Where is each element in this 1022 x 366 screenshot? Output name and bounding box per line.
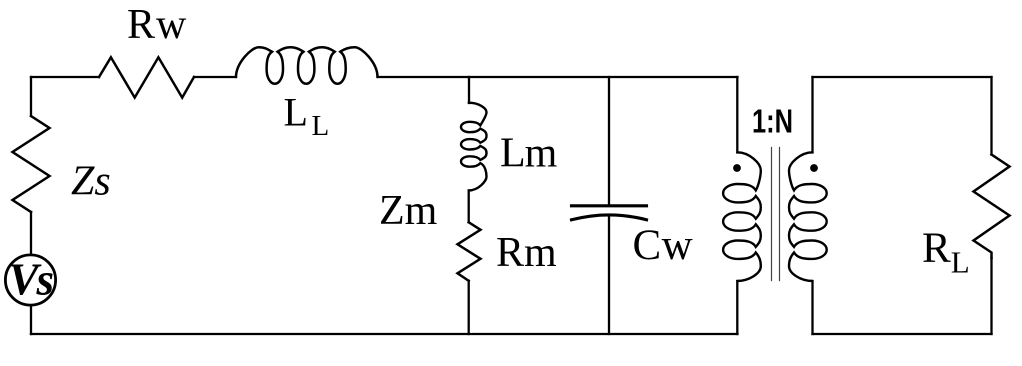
svg-text:RL: RL <box>922 225 970 280</box>
svg-text:Rw: Rw <box>127 2 187 48</box>
svg-text:Zm: Zm <box>379 188 438 234</box>
transformer secondary coil <box>789 152 827 281</box>
capacitor Cw bottom plate <box>572 215 647 220</box>
svg-text:Vs: Vs <box>9 255 54 305</box>
wire secondary right vertical top <box>990 77 992 155</box>
wire Vs to bottom rail <box>30 307 32 335</box>
wire top-left horizontal (source corner to Rw) <box>31 76 99 78</box>
inductor Lm <box>461 103 487 191</box>
svg-text:1:N: 1:N <box>752 103 793 140</box>
wire Rw to LL inductor <box>194 76 236 78</box>
wire Cw to bottom rail <box>608 215 610 334</box>
wire left vertical top (corner to Zs) <box>30 77 32 116</box>
svg-text:Lm: Lm <box>500 131 558 177</box>
wire secondary top rail <box>813 76 992 78</box>
resistor RL <box>974 155 1010 259</box>
wire Zm branch top <box>468 77 470 103</box>
transformer primary coil <box>723 152 761 281</box>
inductor LL <box>236 47 378 84</box>
wire Rm to bottom rail <box>468 281 470 334</box>
wire LL to transformer primary (through Zm and Cw junctions) <box>378 76 738 78</box>
transformer secondary dot <box>810 164 818 172</box>
transformer core lines <box>772 148 780 281</box>
wire transformer primary top lead <box>736 77 738 153</box>
svg-text:Rm: Rm <box>496 230 557 276</box>
transformer primary dot <box>733 164 741 172</box>
wire Cw branch top <box>608 77 610 205</box>
wire transformer secondary top lead <box>811 77 813 153</box>
resistor Zs <box>13 116 50 212</box>
wire transformer secondary bottom lead <box>811 281 813 334</box>
wire bottom rail primary side <box>31 333 738 335</box>
wire secondary right vertical bottom <box>990 258 992 334</box>
wire Zs to Vs source <box>30 212 32 254</box>
wire Lm to Rm <box>468 190 470 222</box>
wire secondary bottom rail <box>813 333 992 335</box>
source Vs circle <box>5 255 55 305</box>
resistor Rm <box>458 222 481 280</box>
svg-text:Cw: Cw <box>633 222 694 269</box>
wire transformer primary bottom lead <box>736 281 738 334</box>
svg-text:LL: LL <box>284 90 330 143</box>
svg-text:Zs: Zs <box>71 159 111 205</box>
resistor Rw <box>99 57 194 97</box>
capacitor Cw top plate <box>572 204 647 207</box>
